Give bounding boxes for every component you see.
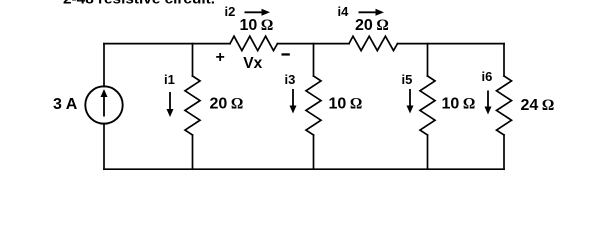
resistor 10ohm horizontal top [230, 36, 278, 50]
wire left rail lower [103, 124, 105, 170]
arrow i3 [290, 89, 297, 114]
wire top middle segment [278, 43, 350, 45]
current source circle [85, 86, 122, 123]
wire node C branch upper [427, 44, 429, 76]
arrow i5 [407, 89, 414, 114]
svg-text:20Ω: 20Ω [355, 17, 389, 34]
svg-text:i1: i1 [164, 72, 175, 87]
wire right rail lower [503, 135, 505, 169]
svg-text:i6: i6 [482, 69, 493, 84]
resistor 10ohm vertical 3 [420, 76, 435, 135]
resistor 20ohm vertical 1 [185, 76, 200, 135]
wire node B branch upper [313, 44, 315, 76]
resistor 24ohm vertical 4 [497, 76, 512, 135]
arrow i4 [359, 9, 385, 16]
svg-text:i2: i2 [225, 4, 236, 19]
svg-text:10Ω: 10Ω [329, 96, 363, 113]
svg-text:i4: i4 [338, 4, 350, 19]
wire top right segment [398, 43, 505, 45]
arrow i6 [485, 91, 492, 115]
wire node A branch upper [192, 44, 194, 76]
svg-text:24Ω: 24Ω [521, 97, 555, 114]
svg-text:+: + [216, 49, 225, 66]
svg-text:2-48 resistive circuit.: 2-48 resistive circuit. [63, 0, 215, 7]
current source arrow [101, 89, 108, 117]
label minus Vx [282, 53, 290, 55]
wire bottom [104, 168, 504, 170]
svg-text:3 A: 3 A [53, 96, 78, 113]
wire top left segment [104, 43, 230, 45]
arrow i1 [167, 92, 174, 117]
resistor 20ohm horizontal top [349, 36, 398, 50]
wire node B branch lower [313, 135, 315, 169]
wire right rail upper [503, 44, 505, 76]
resistor 10ohm vertical 2 [306, 76, 321, 135]
wire left rail upper [103, 44, 105, 87]
svg-text:10Ω: 10Ω [240, 17, 274, 34]
wire node C branch lower [427, 135, 429, 169]
svg-text:i5: i5 [402, 72, 413, 87]
svg-text:i3: i3 [285, 72, 296, 87]
arrow i2 [245, 9, 271, 16]
wire node A branch lower [192, 135, 194, 169]
svg-text:20Ω: 20Ω [210, 96, 244, 113]
svg-text:Vx: Vx [243, 55, 262, 72]
svg-text:10Ω: 10Ω [442, 96, 476, 113]
